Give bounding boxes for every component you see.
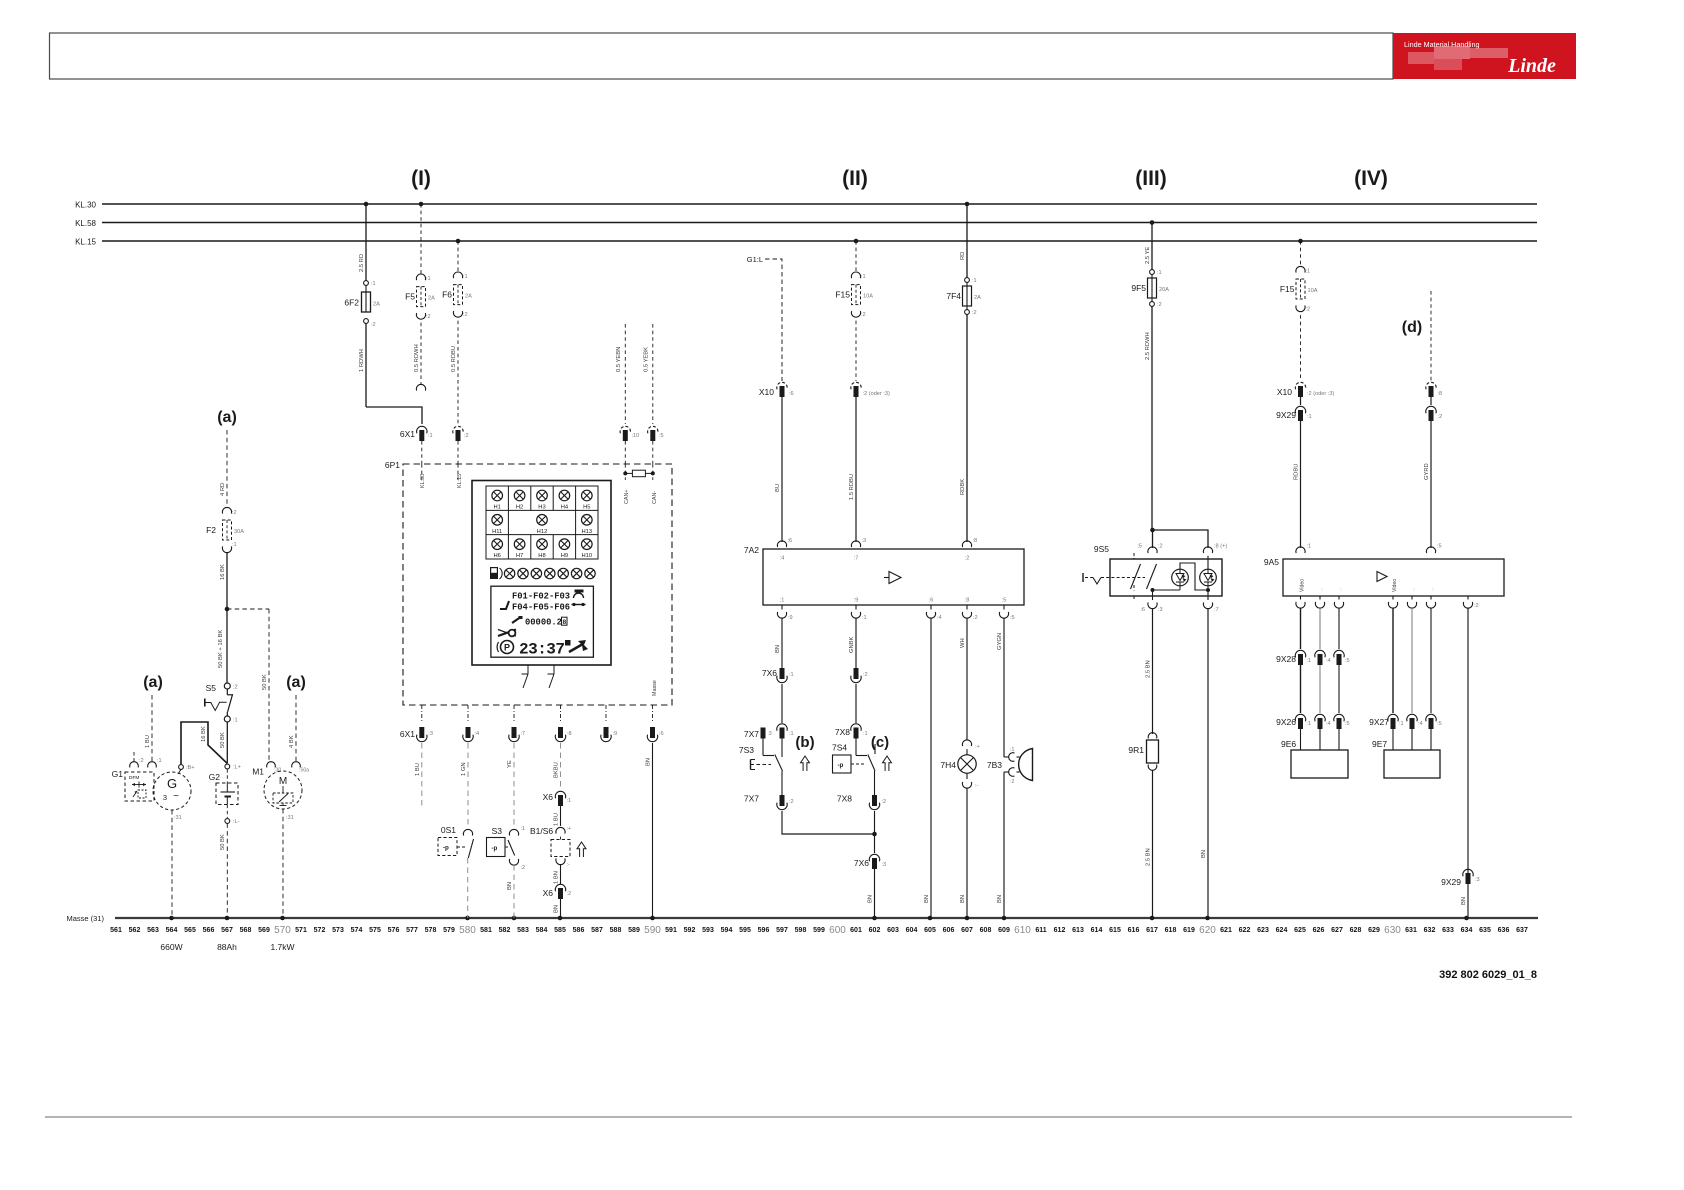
svg-text:9X29: 9X29 [1441,877,1461,887]
svg-text:F6: F6 [442,290,452,300]
svg-text:595: 595 [739,927,751,934]
svg-text::7: :7 [1214,607,1219,613]
svg-text::9: :9 [788,615,793,621]
svg-text:2.5 RD: 2.5 RD [359,254,365,272]
svg-text:575: 575 [369,927,381,934]
svg-text:F15: F15 [835,290,850,300]
svg-text:(III): (III) [1135,167,1167,190]
svg-text:H10: H10 [581,553,592,559]
svg-text::+: :+ [567,826,572,832]
svg-text:1 BU: 1 BU [145,735,151,748]
svg-text::3: :3 [862,538,867,544]
svg-text:599: 599 [813,927,825,934]
svg-text:(a): (a) [143,674,163,691]
svg-text::7: :7 [521,731,526,737]
svg-text:H3: H3 [538,505,545,511]
svg-text:6P1: 6P1 [385,460,400,470]
svg-text:7X7: 7X7 [744,794,759,804]
svg-text:608: 608 [980,927,992,934]
svg-text:1 RDWH: 1 RDWH [359,349,365,372]
svg-text:7S4: 7S4 [832,743,847,753]
svg-text::4: :4 [475,731,480,737]
svg-text:9F5: 9F5 [1131,283,1146,293]
svg-text::1: :1 [862,615,867,621]
svg-text:614: 614 [1091,927,1103,934]
svg-text:586: 586 [573,927,585,934]
svg-text::2: :2 [1010,779,1014,785]
svg-text:X6: X6 [543,792,554,802]
svg-text:584: 584 [536,927,548,934]
svg-text::2: :2 [1306,307,1311,313]
svg-text::5: :5 [1010,615,1015,621]
svg-text:BN: BN [775,645,781,653]
svg-text:G1:L: G1:L [747,255,763,264]
svg-text:-p: -p [492,845,498,852]
svg-text:604: 604 [906,927,918,934]
svg-text::8: :8 [973,538,978,544]
svg-text::2: :2 [973,615,978,621]
svg-text:BN: BN [960,895,966,903]
svg-text:(c): (c) [871,734,889,751]
svg-text:626: 626 [1313,927,1325,934]
svg-text:2A: 2A [465,294,472,300]
svg-text:0S1: 0S1 [441,825,456,835]
svg-text::1: :1 [521,826,526,832]
svg-text:579: 579 [443,927,455,934]
svg-text:0.5 YEBK: 0.5 YEBK [644,347,650,372]
svg-text:4 RD: 4 RD [220,483,226,496]
svg-text::1: :1 [972,278,977,284]
svg-text:P: P [504,643,510,653]
svg-text::2: :2 [861,312,866,318]
svg-text:609: 609 [998,927,1010,934]
svg-text:611: 611 [1035,927,1046,934]
svg-text:(a): (a) [217,409,237,426]
svg-text:590: 590 [644,925,661,936]
svg-text:613: 613 [1072,927,1084,934]
svg-text:KL.15: KL.15 [75,238,96,247]
svg-text:50 BK: 50 BK [220,834,226,850]
svg-text:594: 594 [721,927,733,934]
svg-text:10A: 10A [1308,288,1318,294]
svg-text::2: :2 [139,758,144,764]
svg-text:577: 577 [406,927,418,934]
svg-text:H11: H11 [492,529,502,535]
svg-text::8 (+): :8 (+) [1214,544,1227,550]
svg-text::2: :2 [1158,544,1163,550]
svg-text:Linde: Linde [1507,55,1556,77]
svg-text:610: 610 [1014,925,1031,936]
svg-text:(IV): (IV) [1354,167,1388,190]
svg-text:0.5 RDWH: 0.5 RDWH [414,344,420,372]
svg-text:7S3: 7S3 [739,745,754,755]
svg-text:~: ~ [173,791,179,802]
svg-text:1 BU: 1 BU [554,813,560,826]
svg-text::1: :1 [426,276,431,282]
svg-text:RDBK: RDBK [960,479,966,495]
svg-text::4: :4 [1326,658,1331,664]
svg-text:580: 580 [459,925,476,936]
svg-text:9E7: 9E7 [1372,739,1387,749]
svg-text:603: 603 [887,927,899,934]
svg-text::9: :9 [613,731,618,737]
svg-text::6: :6 [929,598,934,604]
svg-text:M: M [279,776,287,787]
svg-text:564: 564 [166,927,178,934]
svg-text::2: :2 [426,314,431,320]
svg-text::1: :1 [1307,544,1312,550]
svg-text:-p: -p [838,762,844,769]
svg-text::2: :2 [1438,414,1443,420]
svg-text:4 BK: 4 BK [289,735,295,748]
svg-text::2 (oder :3): :2 (oder :3) [1307,391,1334,397]
svg-text:9A5: 9A5 [1264,557,1279,567]
svg-text:615: 615 [1109,927,1121,934]
svg-text:605: 605 [924,927,936,934]
svg-text:50 BK: 50 BK [220,732,226,748]
svg-text::1: :1 [861,274,866,280]
svg-text::50a: :50a [299,768,309,774]
svg-text:88Ah: 88Ah [217,942,237,952]
svg-text:20A: 20A [1159,287,1169,293]
svg-text:635: 635 [1479,927,1491,934]
svg-text:7X8: 7X8 [837,794,852,804]
svg-text:0.5 RDBU: 0.5 RDBU [451,346,457,372]
svg-text::2: :2 [232,510,237,516]
svg-text:572: 572 [314,927,326,934]
svg-text::3: :3 [768,731,772,737]
svg-text::2: :2 [371,322,376,328]
svg-text:583: 583 [517,927,529,934]
svg-text:622: 622 [1239,927,1251,934]
svg-text:2.5 RDWH: 2.5 RDWH [1145,332,1151,360]
svg-text:2.5 YE: 2.5 YE [1145,247,1151,264]
svg-text::8: :8 [1438,391,1443,397]
svg-text:(II): (II) [842,167,868,190]
svg-text::3: :3 [1158,607,1163,613]
svg-text:RDBU: RDBU [1294,464,1300,480]
svg-text::4: :4 [937,615,942,621]
svg-text::: : [1432,587,1433,593]
svg-text::2: :2 [463,312,468,318]
svg-text:7H4: 7H4 [940,760,956,770]
svg-text:7X6: 7X6 [762,668,777,678]
svg-text:0.5 YEBN: 0.5 YEBN [616,347,622,372]
svg-text:9R1: 9R1 [1128,745,1144,755]
svg-text:BN: BN [868,895,874,903]
svg-text:2.5 BN: 2.5 BN [1146,660,1152,678]
svg-text:S5: S5 [206,683,217,693]
svg-text::5: :5 [659,433,664,439]
svg-text:7X6: 7X6 [854,858,869,868]
svg-text:H12: H12 [537,529,548,535]
svg-text::1: :1 [780,598,785,604]
svg-text::-: :- [975,783,979,789]
svg-text::2: :2 [972,310,977,316]
svg-text:8: 8 [562,619,566,626]
svg-text:618: 618 [1165,927,1177,934]
svg-text:597: 597 [776,927,788,934]
svg-text:625: 625 [1294,927,1306,934]
svg-text::1: :1 [789,672,794,678]
svg-text:634: 634 [1461,927,1473,934]
svg-text::9: :9 [854,598,859,604]
svg-text::4: :4 [1326,721,1331,727]
svg-text:623: 623 [1257,927,1269,934]
svg-text:568: 568 [240,927,252,934]
svg-text:633: 633 [1442,927,1454,934]
svg-text::5: :5 [1437,544,1442,550]
svg-text:1 GN: 1 GN [461,762,467,776]
svg-text:573: 573 [332,927,344,934]
svg-text:593: 593 [702,927,714,934]
svg-text:578: 578 [425,927,437,934]
svg-text:619: 619 [1183,927,1195,934]
svg-text:BN: BN [646,758,652,766]
svg-text::1: :1 [1307,658,1312,664]
svg-text:3: 3 [163,793,167,802]
svg-text:G: G [167,776,177,791]
svg-text:581: 581 [480,927,492,934]
svg-text:567: 567 [221,927,233,934]
svg-text::L+: :L+ [233,765,241,771]
svg-text:561: 561 [110,927,122,934]
svg-text:627: 627 [1331,927,1343,934]
svg-text:1.5 RDBU: 1.5 RDBU [849,474,855,500]
svg-text::5: :5 [1345,658,1350,664]
svg-text::B+: :B+ [186,765,195,771]
svg-text:7B3: 7B3 [987,760,1002,770]
svg-text:576: 576 [388,927,400,934]
svg-text:BN: BN [507,882,513,890]
svg-text::2: :2 [464,433,469,439]
svg-text::1: :1 [1010,747,1014,753]
svg-text:7A2: 7A2 [744,545,759,555]
svg-text:X10: X10 [1277,387,1292,397]
svg-text::+: :+ [975,744,980,750]
svg-text:16 BK: 16 BK [220,564,226,580]
svg-text:CAN+: CAN+ [624,489,630,504]
svg-text:CAN-: CAN- [652,491,658,504]
svg-text:630: 630 [1384,925,1401,936]
svg-text:RD: RD [960,252,966,260]
svg-text::5: :5 [1002,598,1007,604]
svg-text:30A: 30A [234,529,244,535]
svg-text::5: :5 [1437,721,1442,727]
svg-text:9X28: 9X28 [1276,654,1296,664]
svg-text:(a): (a) [286,674,306,691]
svg-text::2: :2 [233,685,238,691]
svg-text::L-: :L- [233,819,240,825]
svg-text:B1/S6: B1/S6 [530,826,553,836]
svg-text::-: :- [567,862,571,868]
svg-text:612: 612 [1054,927,1066,934]
svg-text::2: :2 [789,799,794,805]
svg-text:602: 602 [869,927,881,934]
svg-text::1: :1 [157,758,162,764]
svg-text:KL:30: KL:30 [420,474,426,488]
svg-text:660W: 660W [160,942,182,952]
svg-text:F04-F05-F06: F04-F05-F06 [512,603,570,613]
svg-text:607: 607 [961,927,973,934]
svg-text:16 BK: 16 BK [201,726,207,742]
svg-text:GYGN: GYGN [997,633,1003,650]
svg-text:F2: F2 [206,525,216,535]
svg-text:BN: BN [554,905,560,913]
svg-text:50 BK + 16 BK: 50 BK + 16 BK [218,630,224,668]
svg-text::1: :1 [567,798,572,804]
svg-text:563: 563 [147,927,159,934]
svg-text:632: 632 [1424,927,1436,934]
svg-text::1: :1 [232,542,237,548]
svg-text::2: :2 [567,891,572,897]
svg-text::: : [1413,587,1414,593]
svg-text::1: :1 [1306,269,1311,275]
svg-text:Masse (31): Masse (31) [66,914,104,923]
svg-text:23:37: 23:37 [519,641,565,659]
svg-text::: : [1340,587,1341,593]
svg-text::1: :1 [371,281,376,287]
svg-text:589: 589 [628,927,640,934]
svg-text:H9: H9 [561,553,568,559]
svg-text:G1: G1 [112,769,124,779]
svg-text:587: 587 [591,927,603,934]
svg-text:F01-F02-F03: F01-F02-F03 [512,592,570,602]
svg-text:629: 629 [1368,927,1380,934]
svg-text::2: :2 [1157,302,1162,308]
svg-text:9E6: 9E6 [1281,739,1296,749]
svg-text:566: 566 [203,927,215,934]
svg-text::1: :1 [463,274,468,280]
svg-text:G2: G2 [209,772,221,782]
svg-text:DFM: DFM [129,775,139,781]
svg-text:GYRD: GYRD [1424,463,1430,480]
svg-text:Video: Video [1300,579,1306,592]
svg-text::5: :5 [1137,544,1142,550]
svg-text:00000.2: 00000.2 [525,618,562,628]
svg-text::31: :31 [286,815,294,821]
svg-text:(b): (b) [795,734,814,751]
svg-text:BN: BN [997,895,1003,903]
svg-text:591: 591 [665,927,677,934]
svg-text:2A: 2A [428,296,435,302]
svg-text::2 (oder :3): :2 (oder :3) [863,391,890,397]
svg-text::6: :6 [789,391,794,397]
svg-text::31: :31 [174,815,182,821]
svg-text:7X8: 7X8 [835,727,850,737]
svg-text:631: 631 [1405,927,1417,934]
svg-text:H5: H5 [583,505,590,511]
svg-text::4: :4 [780,556,785,562]
svg-text:1.7kW: 1.7kW [270,942,294,952]
svg-text::3: :3 [1475,877,1480,883]
svg-text:GNBK: GNBK [849,636,855,653]
svg-text:621: 621 [1220,927,1232,934]
svg-text::8: :8 [567,731,572,737]
svg-text:9X27: 9X27 [1369,717,1389,727]
svg-text::2: :2 [965,556,970,562]
svg-text:F15: F15 [1280,284,1295,294]
svg-text:WH: WH [960,638,966,648]
svg-text:570: 570 [274,925,291,936]
svg-text:X6: X6 [543,888,554,898]
svg-text::2: :2 [521,865,526,871]
svg-text:(I): (I) [411,167,431,190]
svg-text:YE: YE [507,760,513,768]
svg-text:KL.58: KL.58 [75,219,96,228]
svg-text:X10: X10 [759,387,774,397]
svg-text:616: 616 [1128,927,1140,934]
svg-text::6: :6 [1140,607,1145,613]
svg-text:588: 588 [610,927,622,934]
svg-text:BU: BU [775,484,781,492]
svg-text:601: 601 [850,927,862,934]
svg-text:606: 606 [943,927,955,934]
svg-text::8: :8 [965,598,970,604]
svg-text::4: :4 [1418,721,1423,727]
svg-text:50 BK: 50 BK [262,674,268,690]
svg-text:592: 592 [684,927,696,934]
svg-text:617: 617 [1146,927,1158,934]
svg-text:M1: M1 [252,767,264,777]
svg-text:-p: -p [443,845,449,852]
svg-text:S3: S3 [492,826,503,836]
svg-text:582: 582 [499,927,511,934]
svg-text:585: 585 [554,927,566,934]
svg-text::7: :7 [854,556,859,562]
svg-text::6: :6 [659,731,664,737]
svg-text:BN: BN [1201,850,1207,858]
svg-text::1: :1 [1157,270,1162,276]
svg-text:Video: Video [1392,579,1398,592]
svg-text:2A: 2A [373,302,380,308]
svg-text:H1: H1 [493,505,500,511]
svg-text:392 802 6029_01_8: 392 802 6029_01_8 [1439,969,1537,981]
svg-text:H6: H6 [493,553,500,559]
svg-text:562: 562 [129,927,141,934]
svg-text::2: :2 [863,672,868,678]
svg-text:10A: 10A [863,294,873,300]
svg-text:637: 637 [1516,927,1528,934]
svg-text::3: :3 [428,731,433,737]
svg-text:9X26: 9X26 [1276,717,1296,727]
svg-text::2: :2 [1474,603,1479,609]
svg-text:624: 624 [1276,927,1288,934]
svg-text::5: :5 [1345,721,1350,727]
svg-text:H13: H13 [581,529,592,535]
svg-text::1: :1 [428,433,433,439]
svg-text:1 BN: 1 BN [554,871,560,884]
svg-text::1: :1 [789,731,794,737]
svg-text:9X29: 9X29 [1276,410,1296,420]
svg-text::1: :1 [233,718,238,724]
svg-text:571: 571 [295,927,307,934]
svg-text:H7: H7 [516,553,523,559]
svg-text:F5: F5 [405,292,415,302]
svg-text:2.5 BN: 2.5 BN [1146,848,1152,866]
svg-text:H2: H2 [516,505,523,511]
svg-text:Masse: Masse [652,680,658,696]
svg-text:KL:15: KL:15 [457,474,463,488]
svg-text:569: 569 [258,927,270,934]
svg-text:2A: 2A [974,295,981,301]
svg-text::1: :1 [863,731,868,737]
svg-text:574: 574 [351,927,363,934]
svg-text::10: :10 [632,433,640,439]
svg-text:1 BU: 1 BU [415,763,421,776]
svg-text:620: 620 [1199,925,1216,936]
svg-text:9S5: 9S5 [1094,544,1109,554]
